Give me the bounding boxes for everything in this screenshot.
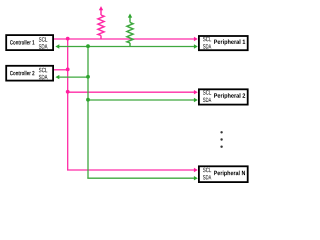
wire SDA bus horizontal (Controller 1 to Peripheral 1) [59,46,195,48]
arrow SCL into Peripheral 1 [194,37,198,41]
arrow SCL into Peripheral 2 [194,90,198,94]
node SDA junction at Peripheral 2 row [86,98,90,102]
arrow SDA into Peripheral N [194,176,198,180]
wire SCL to Peripheral 2 [67,91,195,93]
wire SCL to Peripheral N [67,169,195,171]
resistor pull-up Rp SDA [127,17,133,46]
wire SDA bus vertical [87,47,89,179]
arrow SDA into Controller 2 [55,75,59,79]
node SCL junction at Controller 1 [66,37,70,41]
wire SDA to Peripheral N [87,177,194,179]
Peripheral 2 box [199,89,248,104]
wire SCL bus horizontal (Controller 1 to Peripheral 1) [54,38,195,40]
node SCL junction at Controller 2 [66,68,70,72]
Peripheral 1 box [199,36,248,50]
node SCL junction at Peripheral 2 row [66,90,70,94]
wire SCL bus vertical [67,39,69,170]
Peripheral N box [199,166,248,182]
Controller 1 box [6,35,53,50]
arrow SDA into Controller 1 [55,44,59,48]
arrow SCL into Peripheral N [194,168,198,172]
arrow SDA into Peripheral 1 [194,44,198,48]
node SDA junction at Controller 2 [86,75,90,79]
wire SCL stub Controller 2 [54,69,69,71]
resistor pull-up Rp SCL [98,10,104,39]
arrow SCL pull-up to VDD [99,6,103,10]
ellipsis dots between Peripheral 2 and Peripheral N [220,131,222,133]
arrow SDA pull-up to VDD [128,14,132,18]
Controller 2 box [6,66,53,81]
node SDA junction at Controller 1 [86,44,90,48]
wire SDA stub Controller 2 [59,76,89,78]
wire SDA to Peripheral 2 [87,99,194,101]
arrow SDA into Peripheral 2 [194,98,198,102]
